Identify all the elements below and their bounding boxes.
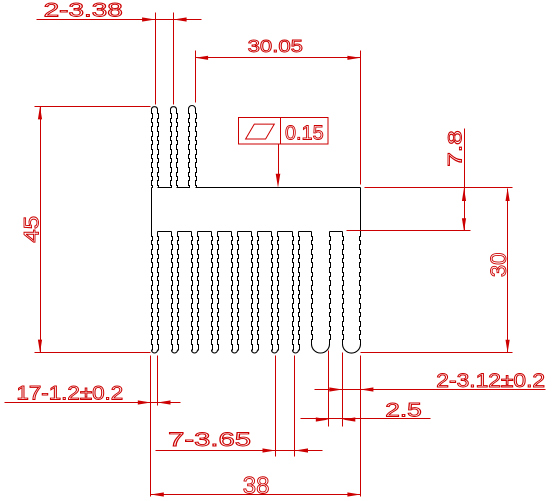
- dimension 17-1.2±0.2 (fin thickness): [5, 356, 181, 497]
- svg-text:2.5: 2.5: [385, 399, 421, 421]
- dimension 38 (overall width): [151, 356, 361, 500]
- dimension 2.5 (gap between wide fins): [301, 351, 431, 427]
- svg-text:30: 30: [486, 253, 511, 278]
- dimension 2-3.38 (top fin pitch): [37, 0, 202, 105]
- dimension 45 (overall height): [19, 106, 151, 352]
- svg-text:45: 45: [19, 216, 43, 243]
- dimension 2-3.12±0.2 (wide fin width): [315, 353, 546, 427]
- dimension 7-3.65 (fin pitch): [156, 356, 323, 457]
- dimension 30 (fin height): [361, 188, 513, 353]
- dimension 30.05: [195, 37, 360, 184]
- heatsink extrusion profile outline: [152, 106, 361, 354]
- svg-text:0.15: 0.15: [285, 122, 324, 144]
- svg-text:30.05: 30.05: [248, 37, 303, 57]
- svg-text:17-1.2±0.2: 17-1.2±0.2: [16, 383, 123, 404]
- svg-text:7.8: 7.8: [444, 130, 466, 166]
- svg-text:7-3.65: 7-3.65: [168, 430, 251, 451]
- svg-text:2-3.38: 2-3.38: [44, 0, 123, 21]
- svg-text:2-3.12±0.2: 2-3.12±0.2: [436, 371, 545, 392]
- svg-text:38: 38: [243, 473, 270, 500]
- feature control frame: parallelism 0.15 with leader arrow: [239, 118, 329, 188]
- dimension 7.8 (base thickness): [347, 129, 513, 232]
